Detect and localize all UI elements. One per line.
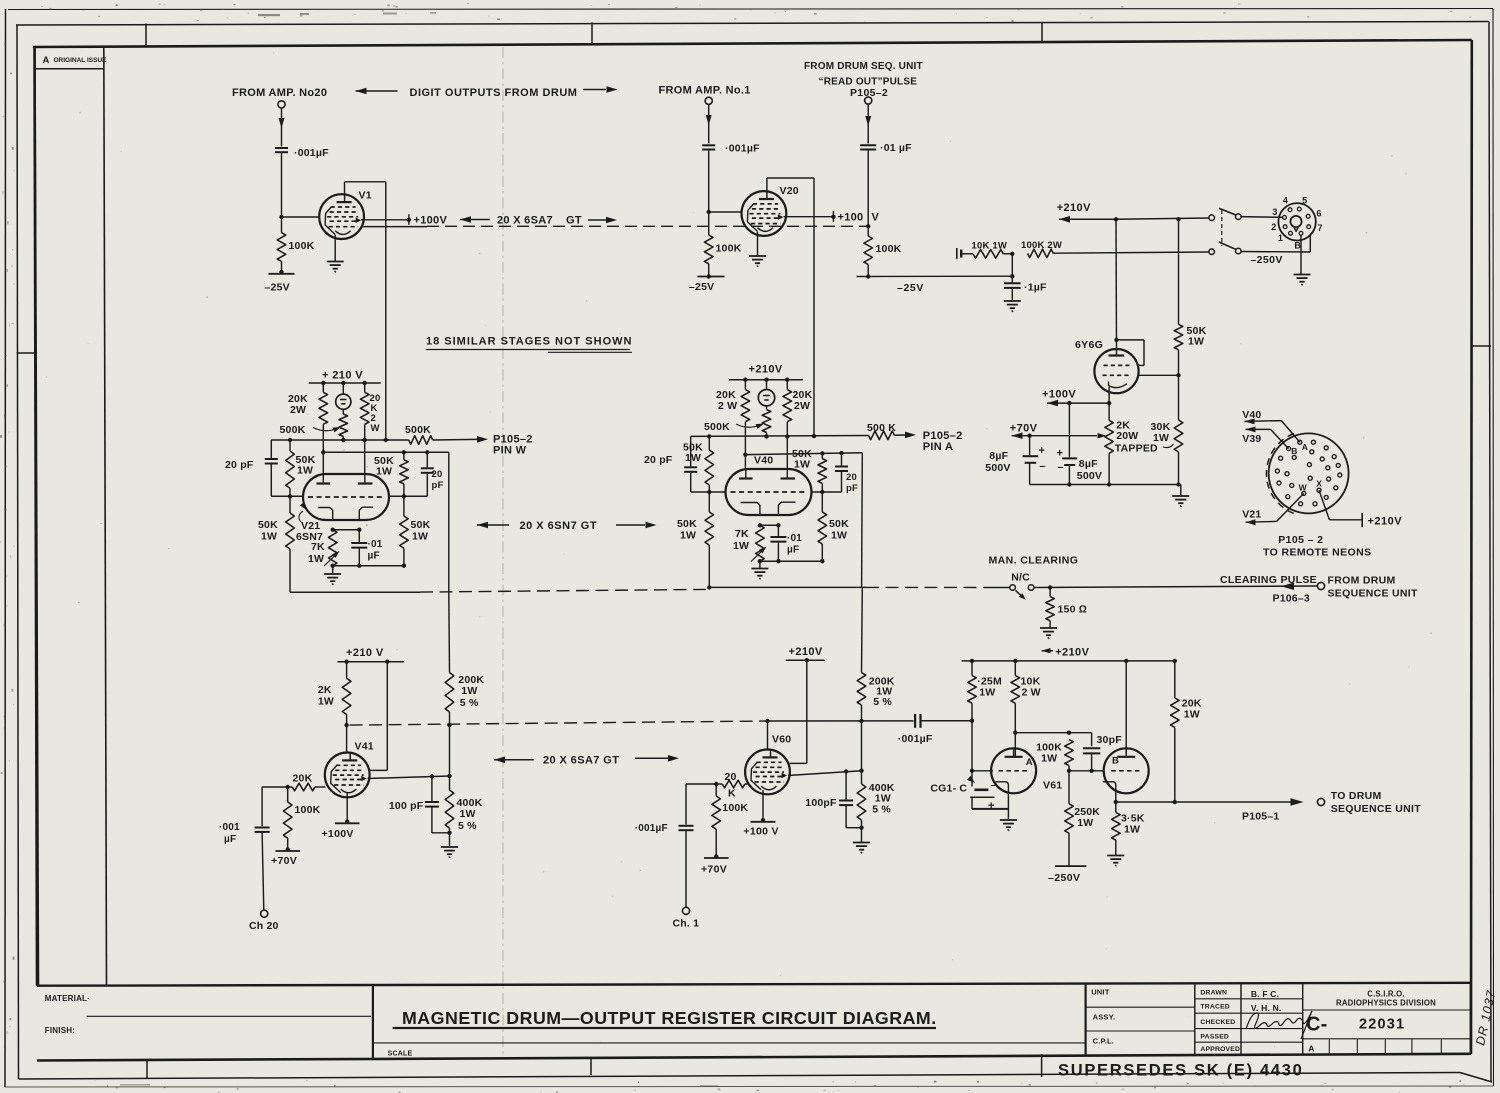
svg-text:GT: GT <box>566 214 582 226</box>
svg-text:150 Ω: 150 Ω <box>1058 604 1088 616</box>
junction 50K feed <box>1176 217 1180 221</box>
label +210V (V40) <box>749 364 783 376</box>
checked signature <box>1246 1011 1312 1039</box>
V41 plate row wire <box>368 776 450 779</box>
label FROM DRUM SEQUENCE UNIT (clearing) <box>1328 575 1419 600</box>
tube V1 6SA7 <box>319 194 364 239</box>
label .25M 1W <box>977 676 1002 699</box>
label 20 X 6SA7 GT <box>497 214 582 226</box>
ground (6Y6G rail) <box>1172 496 1189 507</box>
label 20K 2W (V40 right) <box>793 389 813 412</box>
lead pin X to +210V <box>1319 490 1363 527</box>
wire chain bus to plate row (V60) <box>861 721 863 771</box>
svg-text:+100V: +100V <box>414 214 448 226</box>
label 8uF 500V (no.1) <box>985 450 1010 474</box>
row A wire (V21 plate/output row) <box>271 439 408 441</box>
label N/C <box>1011 572 1030 584</box>
ground (.1uF) <box>1004 301 1021 312</box>
svg-text:6: 6 <box>1316 208 1321 218</box>
label .001 uF (V41) <box>219 822 240 845</box>
socket pin 1 <box>1289 231 1293 235</box>
socket pin 7 <box>1307 225 1311 229</box>
svg-text:20: 20 <box>846 472 857 483</box>
wire terminal to C2 with arrow <box>706 104 712 143</box>
label +210V (V41) <box>346 647 384 659</box>
label +100 V (V20) <box>838 211 880 223</box>
svg-text:“READ OUT”PULSE: “READ OUT”PULSE <box>819 77 918 88</box>
label 20 X 6SN7 GT <box>520 520 598 532</box>
svg-text:ASSY.: ASSY. <box>1093 1013 1116 1022</box>
label 50K 1W (V40 upper-right) <box>792 448 812 471</box>
svg-text:SCALE: SCALE <box>388 1050 413 1057</box>
svg-text:20W: 20W <box>1116 430 1138 442</box>
svg-text:+70V: +70V <box>1010 423 1038 435</box>
wire terminal to C3 with arrow <box>865 104 871 144</box>
label -25V (V1) <box>265 282 290 294</box>
ground (V1 cathode) <box>327 262 344 273</box>
capacitor 20pF left (V21) <box>265 440 278 496</box>
resistor 250K 1W <box>1065 804 1074 866</box>
label +210V (V60) <box>789 646 823 658</box>
resistor 50K 1W upper-left (V40) <box>705 436 714 492</box>
svg-text:20 X 6SA7: 20 X 6SA7 <box>497 214 553 226</box>
label +70V <box>1010 423 1038 435</box>
svg-text:+210V: +210V <box>1057 202 1091 214</box>
wire left plate lead (V21) <box>322 452 324 474</box>
capacitor 100pF (V41) <box>425 776 439 832</box>
label V60 <box>772 734 791 746</box>
title table row lines middle <box>1195 999 1303 1042</box>
svg-text:6Y6G: 6Y6G <box>1075 339 1103 351</box>
junction rowB/50K-right (V21) <box>402 450 406 454</box>
svg-text:+210 V: +210 V <box>346 647 384 659</box>
label 20 K (V60, stacked) <box>725 771 737 800</box>
junction readout/bus <box>866 224 870 228</box>
cathode bottom row (V40) <box>758 559 825 563</box>
junction gridrow/50K (V40 right) <box>820 490 824 494</box>
junction chain/bus (V60) <box>859 719 863 723</box>
resistor 200K 1W 5% (V60 chain) <box>857 587 866 721</box>
label 10K 1W <box>972 240 1008 251</box>
V60 screen feed <box>790 660 807 763</box>
capacitor 20pF right (V40) <box>835 453 848 492</box>
label 100K (V1) <box>289 240 315 252</box>
junction 100K bottom <box>1067 769 1071 773</box>
junction rail/neon (V40) <box>764 378 768 382</box>
svg-text:·01 µF: ·01 µF <box>880 142 912 154</box>
triode V61A <box>991 748 1036 793</box>
svg-text:FROM DRUM SEQ. UNIT: FROM DRUM SEQ. UNIT <box>804 61 923 72</box>
wire plate A lead <box>1014 733 1016 757</box>
label +210V (V61) <box>1055 647 1089 659</box>
svg-text:µF: µF <box>368 551 380 562</box>
terminal P105-2 readout <box>865 97 872 104</box>
label 50K 1W (V21 upper-right) <box>374 455 394 478</box>
svg-text:7: 7 <box>1318 223 1323 233</box>
label TO DRUM SEQUENCE UNIT <box>1331 790 1422 815</box>
label P105-2 (readout) <box>850 87 888 99</box>
svg-text:50K: 50K <box>829 518 849 530</box>
junction rail/25M <box>970 659 974 663</box>
svg-text:18 SIMILAR STAGES NOT SHOW: 18 SIMILAR STAGES NOT SHOWN <box>426 336 632 348</box>
tube V60 6SA7 <box>745 750 790 795</box>
svg-text:100 pF: 100 pF <box>389 800 424 812</box>
junction rail/20K left (V40) <box>743 378 747 382</box>
V41 cathode lead <box>346 793 348 822</box>
wire V20 anode to +100V tap <box>784 216 834 218</box>
svg-text:V41: V41 <box>355 741 374 753</box>
+210V rail stub (V60) <box>786 659 825 661</box>
drawing number C-22031 <box>1306 1014 1405 1036</box>
svg-text:A: A <box>1026 757 1033 768</box>
pot tap arrow (V21) <box>313 427 341 432</box>
label MAN. CLEARING <box>989 555 1079 567</box>
junction rowA/V20-line (V40) <box>812 434 816 438</box>
svg-text:+100V: +100V <box>1042 389 1076 401</box>
label 400K 1W 5% (V60) <box>869 782 895 816</box>
wire bus to V60 top <box>767 721 769 750</box>
resistor 50K 1W lower-left (V21) <box>286 496 295 592</box>
label .1uF <box>1024 282 1047 294</box>
label Ch20 <box>249 920 279 932</box>
label V41 <box>355 741 374 753</box>
wire junction to corner (V60 input) <box>686 783 716 785</box>
svg-text:P106–3: P106–3 <box>1273 593 1310 605</box>
resistor 20K 2W left (V40) <box>741 380 750 455</box>
svg-text:20: 20 <box>725 771 737 783</box>
junction 20K bottom (V61) <box>1173 800 1177 804</box>
potentiometer 500K (V40) <box>762 406 771 437</box>
label 250K 1W <box>1074 806 1100 829</box>
svg-text:V39: V39 <box>1242 433 1261 445</box>
grid row right wire (V40) <box>812 491 842 493</box>
label 500K (V40 pot) <box>704 421 730 433</box>
wire rowB corner down to chain (V21) <box>448 452 450 592</box>
resistor 150 ohm <box>1046 588 1055 628</box>
label arrow left 20x6SN7 GT <box>477 522 509 529</box>
svg-text:7K: 7K <box>311 541 325 553</box>
wire rail to ground (6Y6G) <box>1180 485 1182 496</box>
svg-text:V40: V40 <box>754 455 773 467</box>
label 50K 1W (V21 lower-right) <box>411 519 431 543</box>
lead V21 to pin W <box>1246 493 1304 525</box>
label 500 K (V40 output) <box>867 422 896 434</box>
text SUPERSEDES SK (E) 4430 <box>1058 1062 1304 1080</box>
capacitor .001uF (V1 input) <box>275 148 288 152</box>
header arrow right (digit outputs) <box>583 86 618 93</box>
resistor 50K 1W upper-right (V40) <box>818 453 827 492</box>
terminal bar -25V (V1) <box>269 270 295 274</box>
wire C3 down to bus <box>867 150 869 227</box>
svg-text:CLEARING PULSE: CLEARING PULSE <box>1220 574 1317 586</box>
wire to ground (V41 chain) <box>449 833 451 847</box>
junction 8uF-1 tap <box>1027 434 1031 438</box>
row A wire (V40 plate/output row) <box>691 435 869 438</box>
label 100K 2W <box>1021 240 1062 251</box>
svg-text:C.S.I.R.O.: C.S.I.R.O. <box>1367 990 1405 999</box>
svg-text:8µF: 8µF <box>1079 458 1098 470</box>
svg-text:X: X <box>1316 479 1322 489</box>
junction rail/20K (V61) <box>1173 659 1177 663</box>
grid B row wire <box>1069 770 1105 772</box>
revision strip header cell line <box>35 68 104 70</box>
svg-text:500 K: 500 K <box>867 422 896 434</box>
svg-text:1W: 1W <box>831 530 847 542</box>
junction gridrow/50K (V40 left) <box>707 490 711 494</box>
svg-text:B: B <box>1291 446 1297 456</box>
label 50K 1W (V40 lower-left) <box>677 518 697 542</box>
svg-text:·001µF: ·001µF <box>898 733 933 745</box>
svg-text:A: A <box>1302 442 1308 452</box>
junction rowA/pot (V21) <box>341 438 345 442</box>
output row wire <box>1116 801 1281 803</box>
junction rail/neon (V21) <box>341 381 345 385</box>
svg-text:100K: 100K <box>722 802 748 814</box>
6Y6G cathode lead <box>1108 387 1110 403</box>
dashed bus V41 to V60 <box>350 721 768 725</box>
lead V40 to pin A <box>1245 418 1300 442</box>
ground (socket) <box>1294 275 1311 286</box>
svg-text:1W: 1W <box>794 459 810 471</box>
header text DIGIT OUTPUTS FROM DRUM <box>410 87 578 99</box>
label 30K 1W <box>1151 421 1174 448</box>
junction 150ohm tap <box>1048 585 1052 589</box>
drawing title MAGNETIC DRUM — OUTPUT REGISTER CIRCUIT DIAGRAM <box>393 1008 937 1028</box>
svg-text:50K: 50K <box>258 519 278 531</box>
label .01uF <box>880 142 912 154</box>
svg-text:4: 4 <box>1283 196 1288 206</box>
label -250V (socket) <box>1250 254 1282 266</box>
top fold tick x=592 <box>591 23 593 45</box>
label 50K 1W (screen) <box>1187 325 1207 348</box>
svg-text:20K: 20K <box>293 773 313 785</box>
label V20 <box>780 185 799 197</box>
clearing line wire <box>1034 586 1318 588</box>
junction rail (V60) <box>805 658 809 662</box>
junction +100V tap (V20) <box>831 211 835 222</box>
svg-text:FROM AMP. No.1: FROM AMP. No.1 <box>659 85 751 97</box>
svg-text:+210V: +210V <box>789 646 823 658</box>
terminal bar +70V (V60) <box>704 854 729 858</box>
svg-text:2: 2 <box>1271 222 1276 232</box>
DR 1037 sheet number <box>1473 989 1498 1047</box>
svg-text:APPROVED: APPROVED <box>1200 1046 1240 1053</box>
ground (V40 cathode) <box>751 569 768 580</box>
junction chain/bus (V41) <box>447 723 451 727</box>
svg-text:A: A <box>1308 1044 1314 1054</box>
svg-text:TO DRUM: TO DRUM <box>1331 790 1382 802</box>
resistor 400K 1W 5% (V60 chain) <box>857 771 866 828</box>
label 100K (readout) <box>876 243 902 255</box>
socket pin numerals <box>1271 196 1322 251</box>
V1 grid cap loop to V21 <box>345 182 386 440</box>
ground (V41 chain) <box>441 847 458 858</box>
label P105-2 PIN A <box>923 430 963 453</box>
svg-text:·1µF: ·1µF <box>1024 282 1047 294</box>
svg-text:1W: 1W <box>979 687 995 699</box>
revision strip column <box>35 47 107 986</box>
svg-text:1W: 1W <box>318 696 334 708</box>
resistor 20K (V41 grid stopper) <box>288 783 326 791</box>
socket pin 8 <box>1299 231 1303 235</box>
label READ OUT PULSE <box>819 77 918 88</box>
resistor 10K 1W <box>961 250 1012 259</box>
junction 400K/100pF (V60) <box>846 826 864 830</box>
wire .1uF to ground <box>1011 288 1013 301</box>
label P105-2 (connector) <box>1278 534 1323 546</box>
svg-text:FROM AMP. No20: FROM AMP. No20 <box>232 87 327 99</box>
resistor 200K 1W 5% (V41 chain) <box>445 592 454 725</box>
V20 grid cap loop to V40 <box>767 178 814 436</box>
capacitor .001uF (V41 input) <box>255 787 270 832</box>
svg-text:A: A <box>43 55 50 66</box>
label A (V61) <box>1026 757 1033 768</box>
resistor 20K 1W (V61) <box>1171 661 1180 802</box>
junction rowB/20K-left plate (V21) <box>321 450 325 454</box>
connector P105-2 outline <box>1269 433 1349 513</box>
junction rowA/50K-left (V40) <box>707 434 711 438</box>
svg-text:FINISH:: FINISH: <box>45 1026 75 1035</box>
junction 10K/100K <box>1010 252 1014 256</box>
wire terminal to C1 with arrow <box>279 108 285 147</box>
resistor 100K (V20 grid leak) <box>704 212 713 277</box>
label +210V arrow (V61) <box>1042 648 1054 654</box>
wire coupling cap to 25M junction <box>921 720 973 722</box>
wire 500K to P105-2 arrow (V40) <box>894 432 916 439</box>
svg-text:W: W <box>371 423 380 434</box>
label ASSY <box>1093 1013 1116 1022</box>
chassis bars (10K left end) <box>957 248 961 259</box>
label 100K (V20) <box>716 243 742 255</box>
svg-text:+100 V: +100 V <box>743 826 778 838</box>
svg-text:1W: 1W <box>297 465 313 477</box>
svg-text:Ch. 1: Ch. 1 <box>673 918 700 930</box>
label 3.5K 1W <box>1121 813 1145 836</box>
svg-text:5 %: 5 % <box>458 820 477 832</box>
label 400K 1W 5% (V41) <box>457 797 483 832</box>
value traced V.H.N. <box>1251 1003 1282 1013</box>
label 8uF 500V (no.2) <box>1077 458 1102 482</box>
resistor 100K 2W <box>1028 249 1211 258</box>
svg-text:PIN A: PIN A <box>923 441 953 453</box>
label B (V61) <box>1112 756 1119 767</box>
top fold tick x=1042 <box>1041 22 1043 43</box>
svg-text:·001: ·001 <box>219 822 240 833</box>
junction bus/V60 top <box>765 719 769 723</box>
capacitor 20pF right (V21) <box>421 452 434 496</box>
wire 250K to grid B <box>1068 771 1070 804</box>
junction rowA/20K-right (V21) <box>363 438 367 442</box>
grid row left wire (V40) <box>691 491 726 493</box>
svg-text:µF: µF <box>224 834 236 845</box>
svg-text:–: – <box>991 780 997 791</box>
label 100K 1W (V61) <box>1036 742 1062 765</box>
resistor 100K (V1 grid leak) <box>277 217 286 272</box>
material/finish right edge <box>372 986 374 1060</box>
label -25V (V20) <box>689 281 714 293</box>
label V61 <box>1043 780 1062 792</box>
svg-text:1W: 1W <box>376 466 392 478</box>
+210V rail (V40) <box>729 379 803 381</box>
label 20K 2W (V40 left) <box>716 389 737 412</box>
terminal Ch1 <box>682 907 689 914</box>
svg-text:·001µF: ·001µF <box>725 143 760 155</box>
junction cathode B / output <box>1114 800 1118 804</box>
tube V40 6SN7 <box>726 469 812 515</box>
wire junction to corner (V41 input) <box>262 786 288 788</box>
svg-text:–25V: –25V <box>265 282 290 294</box>
svg-text:1W: 1W <box>685 452 701 464</box>
junction rail/plateB <box>1124 659 1128 663</box>
ground (3.5K) <box>1107 856 1124 867</box>
svg-text:B. F C.: B. F C. <box>1251 989 1279 999</box>
label APPROVED <box>1200 1046 1240 1053</box>
wire grid junction to V1 <box>282 216 320 218</box>
wire pin8 to ground <box>1300 235 1302 274</box>
potentiometer 7K 1W (V21) <box>324 530 340 566</box>
resistor 2K 20W tapped <box>1105 420 1114 484</box>
V60 anode arrow <box>782 773 787 779</box>
resistor 100K (V41) <box>283 787 292 850</box>
svg-text:500V: 500V <box>1077 470 1102 482</box>
socket pin 3 <box>1283 216 1287 220</box>
svg-text:V: V <box>872 211 880 223</box>
label +100V (6Y6G) <box>1042 389 1076 401</box>
label V1 <box>359 190 372 202</box>
label C.S.I.R.O. <box>1367 990 1405 999</box>
label TO REMOTE NEONS <box>1263 547 1371 559</box>
junction chain (V41) <box>447 774 451 778</box>
svg-text:RADIOPHYSICS DIVISION: RADIOPHYSICS DIVISION <box>1336 998 1436 1007</box>
ground (150 ohm) <box>1040 628 1057 639</box>
svg-text:2 W: 2 W <box>718 400 737 412</box>
svg-text:1W: 1W <box>1041 753 1057 765</box>
label 20 pF (V40 left) <box>644 454 673 466</box>
label RADIOPHYSICS DIVISION <box>1336 998 1436 1007</box>
svg-text:30pF: 30pF <box>1097 734 1123 746</box>
resistor 20K 2W right (V40) <box>783 380 792 437</box>
bottom fold tick x=147 <box>146 1060 148 1079</box>
label 100K (V60) <box>722 802 748 814</box>
label 50K 1W (V40 upper-left) <box>683 442 703 465</box>
svg-text:20 X 6SA7 GT: 20 X 6SA7 GT <box>543 755 619 767</box>
svg-text:V1: V1 <box>359 190 372 202</box>
label 500K (V21 output) <box>405 424 431 436</box>
svg-text:7K: 7K <box>735 528 749 540</box>
label V21 (connector) <box>1242 509 1261 521</box>
left fold tick y=353 <box>17 352 36 354</box>
wire right plate lead (V40) <box>786 436 788 469</box>
svg-text:MATERIAL·: MATERIAL· <box>45 994 90 1003</box>
junction 8uF-2 tap <box>1067 401 1071 405</box>
svg-text:50K: 50K <box>677 518 697 530</box>
switch lower blade <box>1219 242 1237 250</box>
junction 30pF bottom <box>1089 769 1093 773</box>
wire left plate lead (V40) <box>744 455 746 470</box>
output arrow to drum <box>1281 798 1304 806</box>
label 6Y6G <box>1075 339 1103 351</box>
svg-text:–250V: –250V <box>1250 254 1282 266</box>
label 50K 1W (V21 lower-left) <box>258 519 278 543</box>
svg-text:500K: 500K <box>405 424 431 436</box>
tube 6Y6G <box>1094 349 1138 393</box>
svg-text:N/C: N/C <box>1011 572 1030 584</box>
label FROM AMP. No.1 <box>659 85 751 97</box>
svg-text:1: 1 <box>1278 233 1283 243</box>
junction rail/10K <box>1013 659 1017 663</box>
label .001uF (coupling) <box>898 733 933 745</box>
potentiometer 7K 1W (V40) <box>751 525 767 561</box>
